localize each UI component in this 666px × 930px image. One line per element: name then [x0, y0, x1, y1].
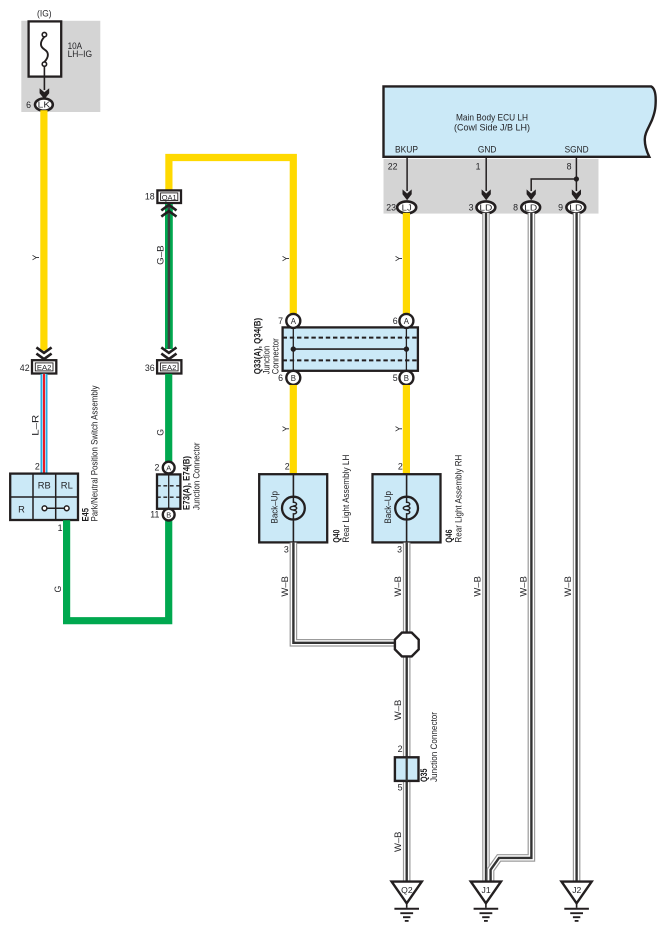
svg-text:GND: GND	[478, 144, 497, 154]
ground J1	[471, 882, 501, 921]
label E45 Park/Neutral Position Switch Assembly	[80, 385, 99, 521]
svg-text:Rear Light Assembly RH: Rear Light Assembly RH	[453, 455, 463, 543]
label pin 2 of E45	[35, 462, 40, 472]
svg-text:1: 1	[58, 523, 63, 533]
svg-text:2: 2	[154, 463, 159, 473]
svg-text:L–R: L–R	[30, 415, 40, 436]
svg-text:J2: J2	[572, 885, 581, 895]
svg-text:Park/Neutral Position Switch A: Park/Neutral Position Switch Assembly	[90, 385, 100, 521]
label pin 3 of Q40	[284, 545, 289, 555]
svg-text:Junction Connector: Junction Connector	[429, 712, 439, 782]
wire Y from Q34 B left to Q40	[290, 385, 297, 474]
label pin 3 of Q46	[397, 545, 402, 555]
svg-text:W–B: W–B	[563, 576, 573, 597]
label pin 5 of Q35	[398, 782, 403, 792]
svg-text:1: 1	[476, 161, 481, 171]
junction connector E73(A) E74(B) pin B	[150, 509, 174, 521]
label pin 2 of Q40	[285, 462, 290, 472]
junction connector Q34 pin B right 5	[393, 371, 414, 385]
svg-text:8: 8	[513, 203, 518, 213]
label Q46 Rear Light Assembly RH	[444, 455, 463, 543]
svg-text:2: 2	[398, 462, 403, 472]
svg-text:2: 2	[398, 744, 403, 754]
svg-text:W–B: W–B	[518, 576, 528, 597]
svg-text:(Cowl Side J/B LH): (Cowl Side J/B LH)	[454, 122, 530, 132]
label Y above Q46	[394, 426, 404, 432]
wire G from EA2 36 to E73 pin A	[165, 374, 172, 462]
svg-text:B: B	[291, 374, 296, 383]
svg-text:W–B: W–B	[473, 576, 483, 597]
svg-text:3: 3	[469, 203, 474, 213]
wire BKUP pin 22 lead	[388, 157, 407, 191]
svg-text:Y: Y	[394, 256, 404, 262]
junction connector E73(A) E74(B) pin A	[154, 462, 174, 474]
svg-text:Main Body ECU LH: Main Body ECU LH	[456, 112, 528, 122]
label W-B below Q40	[280, 576, 290, 597]
junction block EA2 pin 36	[145, 360, 181, 373]
lamp Q40 rear light assembly LH back-up	[259, 474, 327, 542]
svg-text:A: A	[291, 317, 297, 326]
label Y	[31, 255, 41, 261]
label pin 1 of E45	[58, 523, 63, 533]
arrow into connector LJ	[403, 189, 412, 200]
junction connector Q35 body	[395, 757, 419, 781]
label Y on BKUP wire	[394, 256, 404, 262]
svg-text:A: A	[166, 463, 171, 472]
svg-text:G–B: G–B	[156, 245, 166, 265]
arrow into connector LD 3	[482, 189, 491, 200]
shaded block: cowl side J/B LH connector area	[384, 159, 599, 214]
junction connector E73(A) E74(B) body	[157, 474, 180, 508]
arrow into connector LK	[40, 88, 50, 99]
wire W-B from LD 8 joining ground J1	[491, 213, 532, 882]
svg-text:B: B	[166, 510, 171, 519]
wire Y from Q34 B right to Q46	[403, 385, 410, 474]
fuse 10A LH-IG	[29, 21, 62, 76]
wire Y from LK to EA2	[40, 110, 47, 350]
svg-text:5: 5	[393, 373, 398, 383]
svg-text:(IG): (IG)	[37, 9, 52, 19]
label G on lower left wire	[53, 586, 63, 593]
svg-text:Q2: Q2	[401, 885, 413, 895]
wire L-R from EA2 to E45	[41, 374, 48, 474]
arrow into connector LD 8	[527, 189, 536, 200]
svg-text:W–B: W–B	[393, 700, 403, 721]
svg-text:LH–IG: LH–IG	[68, 49, 93, 59]
label (IG)	[37, 9, 52, 19]
chevron arrows into EA2 42	[36, 347, 51, 359]
svg-text:23: 23	[386, 203, 396, 213]
svg-text:E73(A), E74(B): E73(A), E74(B)	[182, 456, 192, 510]
svg-text:QA1: QA1	[162, 193, 177, 202]
ground J2	[562, 882, 592, 921]
svg-text:EA2: EA2	[162, 363, 177, 372]
svg-text:LD: LD	[569, 202, 582, 212]
wire W-B from LD 9 to ground J2	[573, 213, 581, 882]
wire Y from LJ to Q33 pin A right	[403, 213, 410, 315]
svg-text:7: 7	[278, 316, 283, 326]
label L-R	[30, 415, 40, 436]
svg-text:6: 6	[393, 316, 398, 326]
junction connector Q33 pin A right 6	[393, 314, 414, 328]
connector LD pin 3	[469, 201, 496, 213]
junction connector Q33(A) Q34(B) body	[283, 327, 418, 370]
svg-text:BKUP: BKUP	[395, 144, 418, 154]
wire G from E45 pin1 down across and up to E73 pin B	[67, 520, 169, 621]
label G	[156, 429, 166, 436]
svg-text:2: 2	[285, 462, 290, 472]
wire fuse output lead	[43, 66, 45, 90]
wire SGND pin 8 lead with branch node	[531, 157, 579, 191]
svg-text:EA2: EA2	[37, 363, 52, 372]
svg-text:A: A	[404, 317, 410, 326]
switch E45 park/neutral position switch assembly	[10, 474, 78, 520]
svg-text:36: 36	[145, 363, 155, 373]
chevron arrows down into EA2 36	[161, 347, 176, 359]
label pin 2 of Q35	[398, 744, 403, 754]
svg-text:Rear Light Assembly LH: Rear Light Assembly LH	[341, 455, 351, 543]
label fuse value 10A LH-IG	[68, 41, 93, 59]
connector LK pin 6	[26, 99, 53, 111]
wire W-B from Q46 pin3 through node and Q35 to ground Q2	[403, 543, 411, 882]
arrow into connector LD 9	[572, 189, 581, 200]
wire GND pin 1 lead	[476, 157, 487, 191]
svg-text:J1: J1	[482, 885, 491, 895]
svg-text:LD: LD	[524, 202, 537, 212]
ECU block Main Body ECU LH	[384, 86, 656, 156]
label Q33(A), Q34(B) Junction Connector	[253, 318, 281, 375]
svg-text:Junction Connector: Junction Connector	[191, 443, 201, 511]
svg-text:W–B: W–B	[393, 576, 403, 597]
svg-text:R: R	[18, 504, 25, 514]
svg-text:Q35: Q35	[419, 769, 429, 783]
label Y above Q40	[281, 426, 291, 432]
svg-text:LJ: LJ	[402, 202, 412, 212]
label G-B	[156, 245, 166, 265]
svg-text:Connector: Connector	[270, 338, 280, 374]
label pin 2 of Q46	[398, 462, 403, 472]
wire G-B shielded from QA1 to EA2	[165, 204, 173, 349]
svg-text:RL: RL	[61, 481, 73, 491]
ground Q2	[392, 882, 422, 921]
svg-text:Y: Y	[281, 256, 291, 262]
svg-text:Y: Y	[394, 426, 404, 432]
svg-text:11: 11	[150, 510, 159, 520]
label W-B below Q46	[393, 576, 403, 597]
svg-text:2: 2	[35, 462, 40, 472]
chevron arrows up into QA1	[161, 205, 176, 217]
node splice octagon	[395, 633, 419, 657]
svg-text:G: G	[53, 586, 63, 593]
svg-text:5: 5	[398, 782, 403, 792]
label Q40 Rear Light Assembly LH	[332, 455, 351, 543]
wire Y from QA1 up over to Q33 pin A	[169, 158, 293, 315]
svg-text:6: 6	[26, 100, 31, 110]
wire W-B from LD 3 to ground J1	[482, 213, 490, 882]
svg-text:3: 3	[397, 545, 402, 555]
svg-text:Y: Y	[281, 426, 291, 432]
shaded block: fuse box area (J/B)	[21, 21, 100, 112]
label W-B on LD9 wire	[563, 576, 573, 597]
connector LJ pin 23	[386, 201, 416, 213]
label Q35 Junction Connector	[419, 712, 439, 782]
svg-text:3: 3	[284, 545, 289, 555]
svg-text:W–B: W–B	[280, 576, 290, 597]
connector LD pin 8	[513, 201, 540, 213]
svg-text:Y: Y	[31, 255, 41, 261]
svg-text:LD: LD	[479, 202, 492, 212]
junction connector Q33 pin A left 7	[278, 314, 300, 328]
svg-text:G: G	[156, 429, 166, 436]
svg-text:LK: LK	[38, 100, 51, 110]
junction block EA2 pin 42	[20, 360, 56, 373]
svg-text:W–B: W–B	[393, 831, 403, 852]
svg-text:22: 22	[388, 161, 398, 171]
lamp Q46 rear light assembly RH back-up	[373, 474, 441, 542]
junction block QA1 pin 18	[145, 190, 181, 203]
connector LD pin 9	[558, 201, 585, 213]
svg-text:SGND: SGND	[565, 144, 589, 154]
wire W-B from Q40 pin3 to junction node	[293, 543, 397, 643]
svg-text:B: B	[404, 374, 409, 383]
svg-text:9: 9	[558, 203, 563, 213]
svg-text:RB: RB	[38, 481, 51, 491]
label W-B on LD8 wire	[518, 576, 528, 597]
label W-B above Q35	[393, 700, 403, 721]
svg-text:Back–Up: Back–Up	[383, 491, 393, 524]
junction connector Q34 pin B left 6	[278, 371, 300, 385]
svg-text:Back–Up: Back–Up	[270, 491, 280, 524]
svg-text:8: 8	[567, 161, 572, 171]
svg-text:42: 42	[20, 363, 30, 373]
svg-text:18: 18	[145, 191, 155, 201]
label W-B below Q35	[393, 831, 403, 852]
label Y on riser to Q33	[281, 256, 291, 262]
label E73(A), E74(B) Junction Connector	[182, 443, 202, 511]
label W-B on LD3 wire	[473, 576, 483, 597]
